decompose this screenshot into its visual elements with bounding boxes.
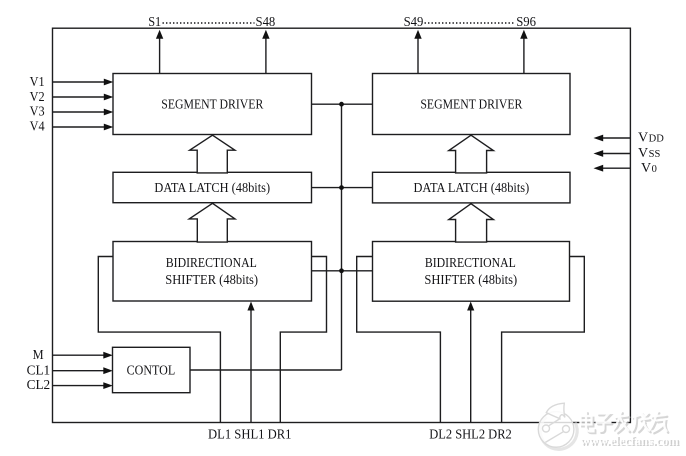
svg-text:S48: S48 [256,15,276,30]
watermark logo node 1 [543,425,550,432]
bidirectional shifter U6 box [373,242,570,302]
data latch U3 box [113,172,312,202]
arrowhead V4 [104,124,114,131]
arrowhead V1 [104,79,114,86]
wire seg-driver link [312,103,373,105]
svg-text:www.elecfans.com: www.elecfans.com [580,433,679,448]
svg-text:CL1: CL1 [27,363,51,378]
wire DR2 path [502,257,585,423]
wire shifter link [312,270,373,272]
wire S49 output [417,38,419,74]
data latch U4 box [373,172,571,203]
arrowhead V3 [104,109,114,116]
svg-text:V0: V0 [641,161,657,176]
wire DL1 path [98,257,220,423]
segment driver U1 box [113,74,312,135]
svg-text:V2: V2 [30,90,45,105]
svg-text:SHIFTER (48bits): SHIFTER (48bits) [424,273,517,288]
svg-text:VSS: VSS [638,146,660,161]
watermark logo link line 1 [549,419,560,426]
svg-text:DL2 SHL2 DR2: DL2 SHL2 DR2 [429,427,512,442]
svg-text:DATA LATCH (48bits): DATA LATCH (48bits) [414,181,530,196]
svg-text:SHIFTER (48bits): SHIFTER (48bits) [165,273,258,288]
svg-text:CONTOL: CONTOL [127,364,176,379]
svg-text:BIDIRECTIONAL: BIDIRECTIONAL [166,256,257,271]
block arrow shifter2 to latch2 [449,204,494,242]
wire DL2 path [357,257,441,423]
wire S1 output [159,38,161,74]
watermark logo flame [546,403,565,419]
segment driver U2 box [373,74,571,135]
watermark logo link line 2 [545,432,563,443]
wire CL2 [53,385,105,387]
bidirectional shifter U5 box [113,242,312,302]
outer chip border [53,28,631,422]
svg-text:DATA LATCH (48bits): DATA LATCH (48bits) [154,181,270,196]
arrowhead V2 [104,94,114,101]
wire M [53,354,105,356]
wire S48 output [265,38,267,74]
arrowhead VSS [594,150,604,157]
wire V2 [53,96,105,98]
arrowhead VDD [594,135,604,142]
node J2 [339,185,344,190]
svg-text:SEGMENT DRIVER: SEGMENT DRIVER [420,97,523,112]
control U7 box [113,347,191,392]
dotted leader S49-S96 [425,22,516,24]
arrowhead V0 [594,165,604,172]
arrowhead CL2 [103,382,113,389]
wire SHL1 [250,309,252,423]
wire data-latch link [312,187,373,189]
svg-text:V4: V4 [30,120,45,135]
watermark brand characters shadow [582,413,668,433]
arrowhead M [103,352,113,359]
arrowhead S96 [520,30,527,39]
wire V1 [53,81,105,83]
node J3 [339,268,344,273]
wire control output [190,369,342,371]
arrowhead S49 [414,30,421,39]
block arrow latch1 to driver1 [190,135,235,173]
watermark brand characters [581,412,667,432]
block arrow shifter1 to latch1 [189,203,235,242]
wire VDD [603,137,631,139]
wire CL1 [53,370,105,372]
svg-text:V3: V3 [30,105,45,120]
dotted leader S1-S48 [163,22,255,24]
svg-text:SEGMENT DRIVER: SEGMENT DRIVER [161,97,264,112]
wire V3 [53,111,105,113]
svg-text:V1: V1 [30,75,45,90]
svg-text:VDD: VDD [638,131,664,146]
svg-text:BIDIRECTIONAL: BIDIRECTIONAL [425,256,516,271]
svg-text:M: M [33,348,44,363]
svg-text:CL2: CL2 [27,378,51,393]
watermark logo circle [538,403,577,449]
watermark logo node 2 [563,426,570,433]
arrowhead SHL1 [247,302,254,311]
svg-text:DL1 SHL1 DR1: DL1 SHL1 DR1 [208,427,292,442]
wire central bus [341,104,343,370]
wire V0 [603,167,631,169]
svg-text:S49: S49 [404,15,424,30]
block arrow latch2 to driver2 [449,135,494,173]
wire DR1 path [280,257,326,423]
arrowhead SHL2 [467,302,474,311]
arrowhead S1 [156,30,163,39]
wire SHL2 [470,309,472,423]
svg-text:S1: S1 [148,15,161,30]
node J1 [339,102,344,107]
arrowhead CL1 [103,367,113,374]
wire VSS [603,153,631,155]
arrowhead S48 [262,30,269,39]
wire V4 [53,126,105,128]
wire S96 output [523,38,525,74]
svg-text:S96: S96 [516,15,536,30]
